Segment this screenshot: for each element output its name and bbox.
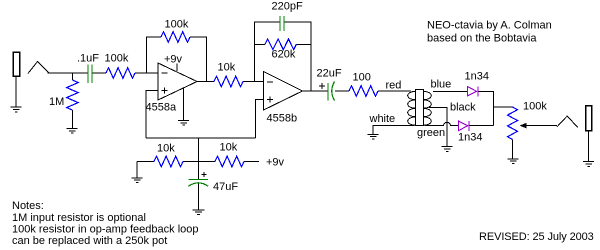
svg-text:100k resistor in op-amp feedba: 100k resistor in op-amp feedback loop [12,224,199,236]
svg-text:black: black [450,102,476,114]
svg-text:100k: 100k [105,53,129,65]
svg-text:100k: 100k [165,19,189,31]
svg-text:+9v: +9v [266,157,285,169]
svg-text:1n34: 1n34 [458,132,482,144]
svg-text:white: white [369,113,396,125]
svg-text:220pF: 220pF [272,1,303,13]
svg-text:NEO-ctavia by A. Colman: NEO-ctavia by A. Colman [427,20,552,32]
svg-text:red: red [386,80,402,92]
svg-text:10k: 10k [218,62,236,74]
svg-text:.1uF: .1uF [77,53,99,65]
svg-text:blue: blue [431,79,452,91]
svg-text:1M input resistor is optional: 1M input resistor is optional [12,212,146,224]
svg-text:1n34: 1n34 [465,71,489,83]
svg-text:green: green [417,127,445,139]
svg-text:1M: 1M [49,96,64,108]
svg-text:based on the Bobtavia: based on the Bobtavia [427,33,537,45]
svg-text:10k: 10k [220,142,238,154]
svg-text:Notes:: Notes: [12,200,44,212]
svg-text:can be replaced with a 250k po: can be replaced with a 250k pot [12,235,167,247]
svg-text:4558b: 4558b [267,113,298,125]
svg-text:10k: 10k [157,143,175,155]
svg-text:+9v: +9v [164,54,183,66]
svg-text:620k: 620k [272,49,296,61]
svg-text:4558a: 4558a [146,102,177,114]
svg-text:REVISED: 25 July 2003: REVISED: 25 July 2003 [479,231,594,243]
svg-text:100k: 100k [523,101,547,113]
svg-text:100: 100 [353,72,371,84]
svg-text:22uF: 22uF [317,68,342,80]
svg-text:47uF: 47uF [213,181,238,193]
